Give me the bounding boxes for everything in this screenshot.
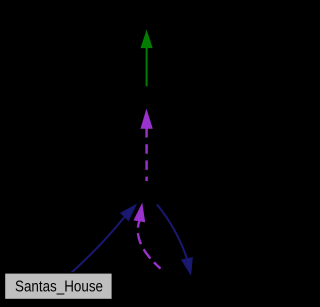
svg-text:Santas_House: Santas_House bbox=[15, 278, 103, 295]
